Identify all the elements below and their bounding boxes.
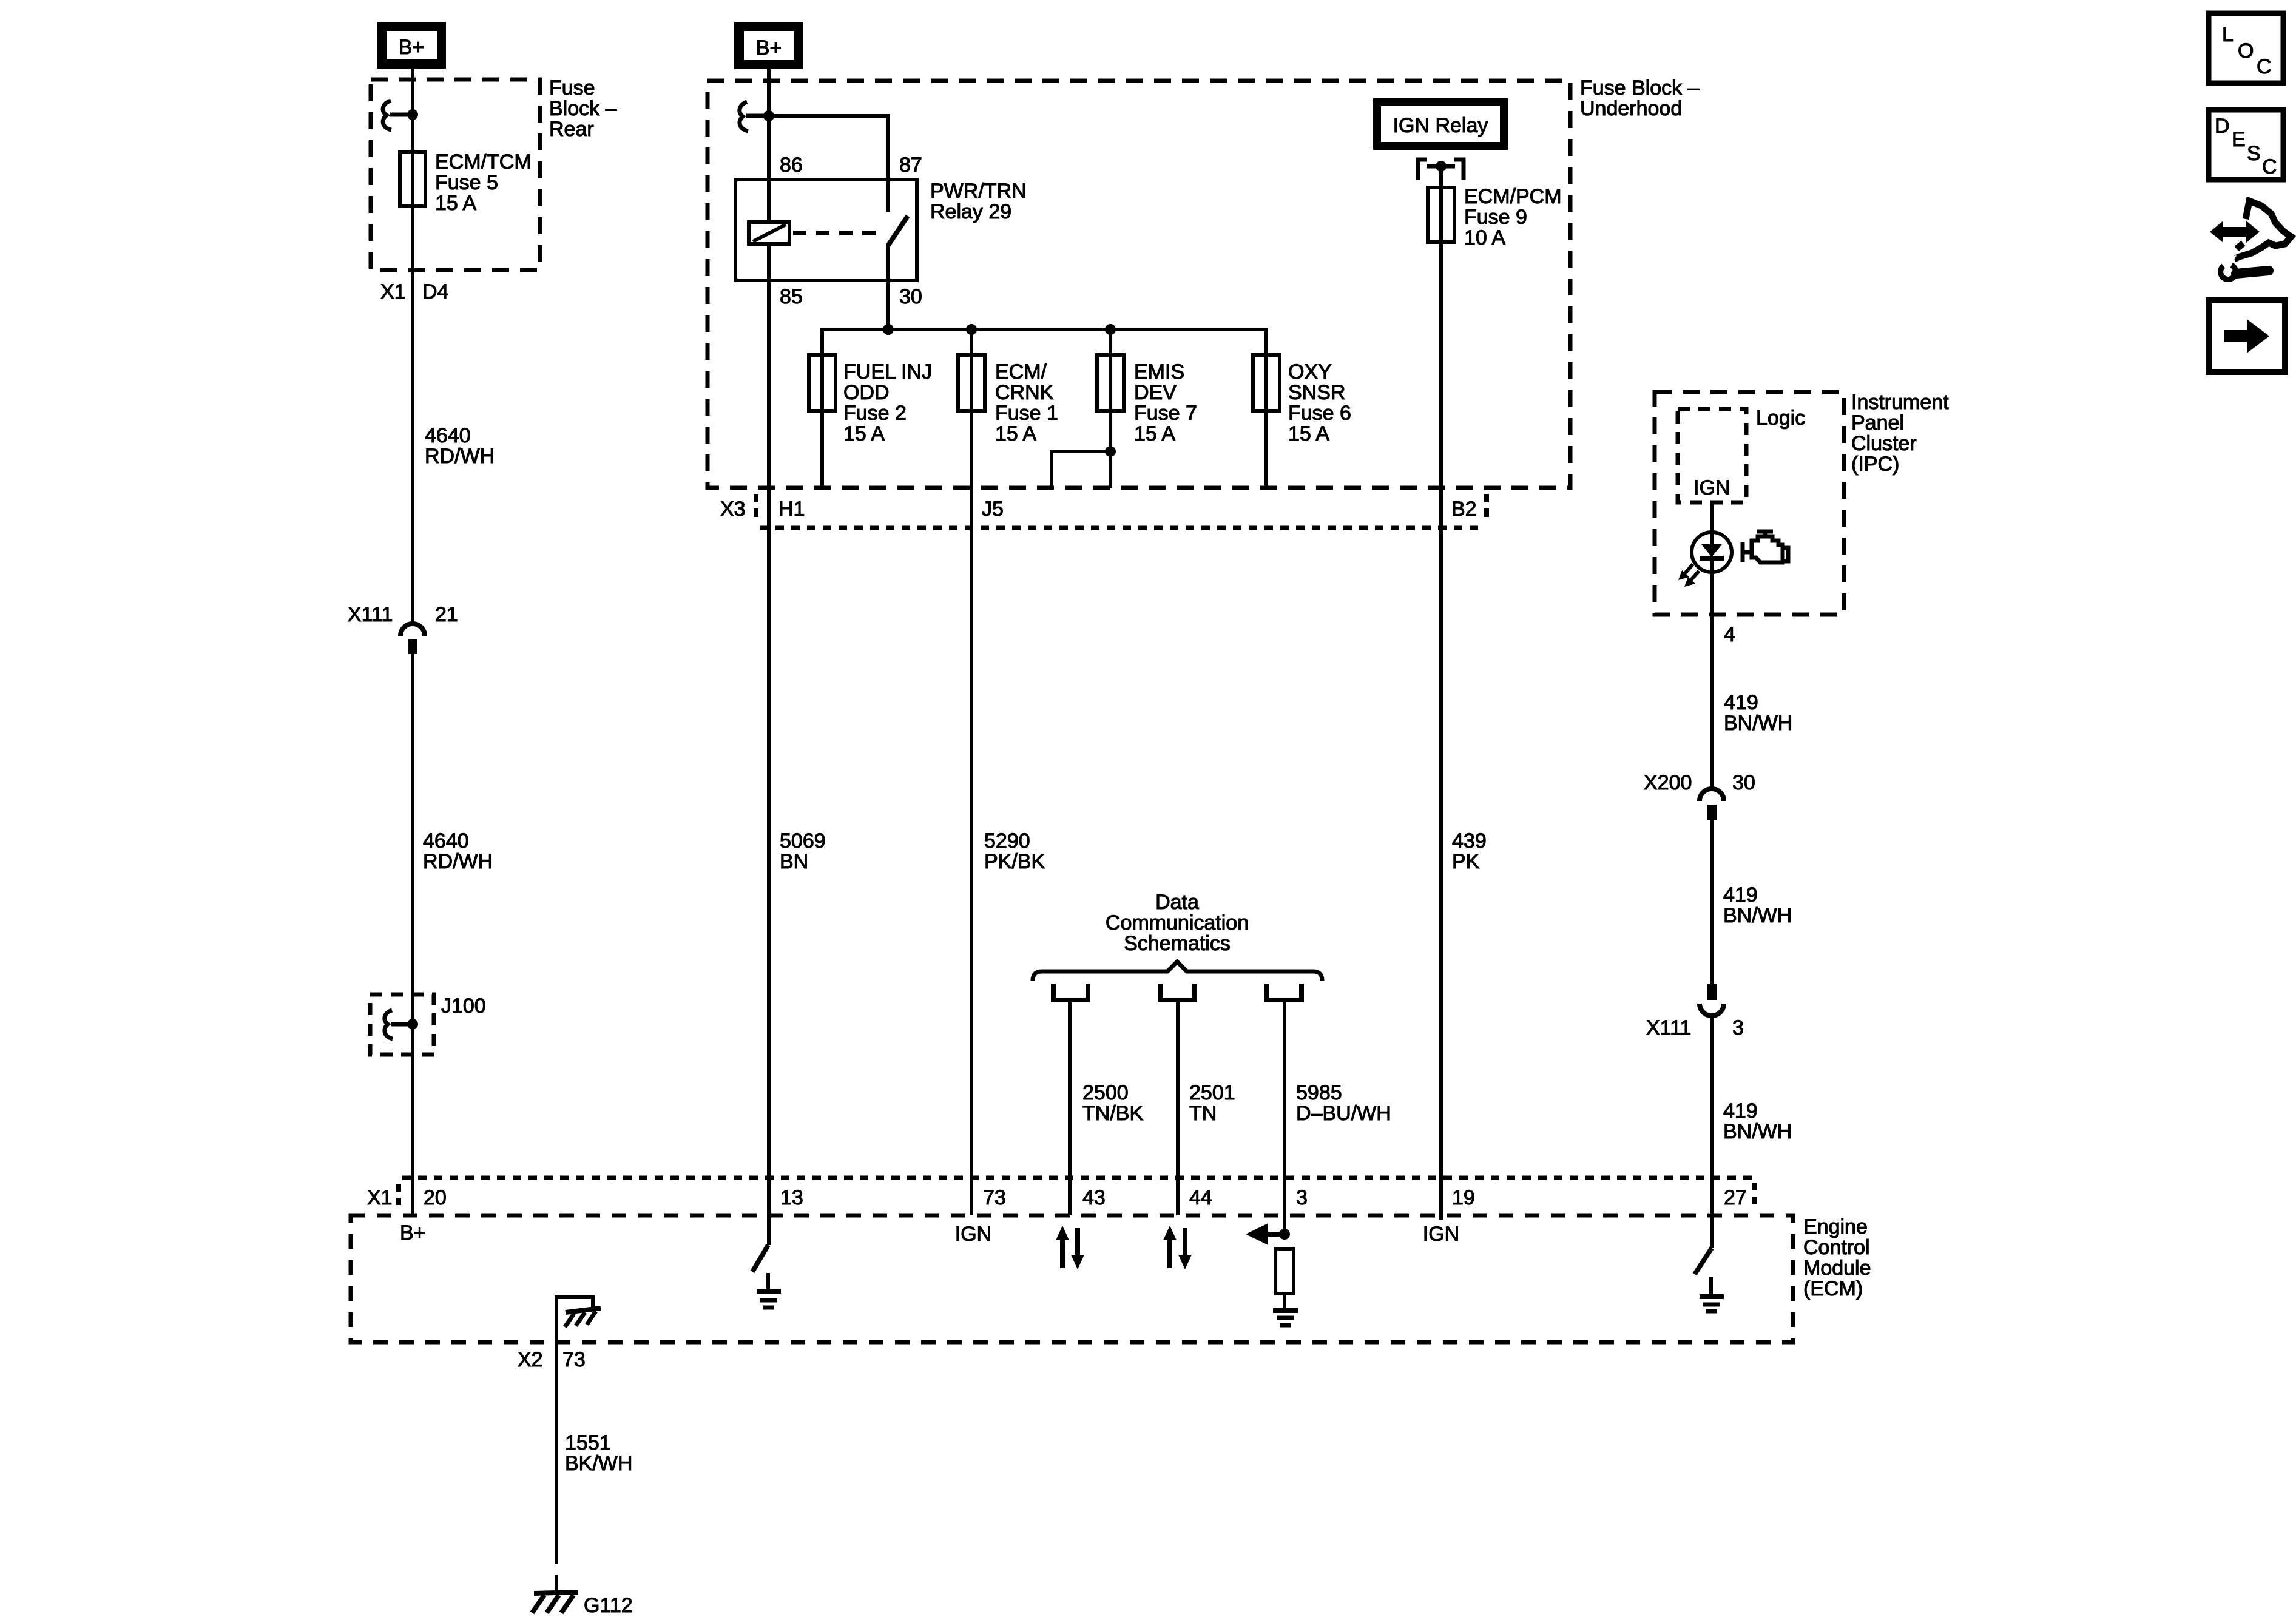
connector label X1 D4 [380, 280, 448, 303]
svg-text:IGN Relay: IGN Relay [1393, 114, 1488, 137]
connector X1 dotted line [402, 1176, 1755, 1180]
svg-text:RD/WH: RD/WH [423, 850, 493, 873]
svg-text:21: 21 [435, 603, 458, 626]
label Fuse Block - Underhood [1580, 76, 1700, 120]
svg-text:C: C [2257, 55, 2272, 78]
wire label 419 BN/WH [1723, 883, 1792, 927]
junction dot bus/fuse7 [1105, 324, 1116, 335]
svg-text:5985: 5985 [1296, 1081, 1342, 1104]
off-page connector to pin 43 [1053, 984, 1088, 1215]
svg-text:TN: TN [1189, 1102, 1217, 1125]
fuse EMIS DEV Fuse 7 15 A [1097, 329, 1197, 488]
svg-text:27: 27 [1724, 1186, 1747, 1209]
svg-text:B+: B+ [756, 36, 782, 59]
svg-text:B+: B+ [399, 36, 425, 59]
wire logic to LED [1710, 502, 1714, 535]
label Engine Control Module (ECM) [1803, 1215, 1871, 1300]
switch at pin 27 [1695, 1248, 1712, 1274]
svg-text:Fuse 1: Fuse 1 [995, 402, 1058, 425]
svg-text:86: 86 [780, 154, 803, 177]
svg-text:Fuse 5: Fuse 5 [435, 171, 498, 194]
wire label 5290 PK/BK [984, 829, 1045, 873]
svg-text:15 A: 15 A [995, 422, 1036, 445]
svg-text:(IPC): (IPC) [1851, 453, 1899, 476]
wire X111 to J100 [411, 654, 414, 1215]
svg-text:439: 439 [1452, 829, 1487, 852]
svg-text:Fuse 6: Fuse 6 [1288, 402, 1351, 425]
svg-text:419: 419 [1723, 1099, 1758, 1122]
svg-text:2500: 2500 [1082, 1081, 1129, 1104]
fuse OXY SNSR Fuse 6 15 A [1253, 355, 1351, 445]
svg-text:L: L [2222, 23, 2234, 46]
in-line connector X200 pin 30 [1644, 771, 1755, 820]
svg-text:Communication: Communication [1106, 911, 1249, 934]
in-line connector X111 pin 21 [348, 603, 458, 654]
svg-text:X200: X200 [1644, 771, 1692, 794]
svg-text:C: C [2262, 155, 2277, 178]
svg-text:IGN: IGN [1423, 1223, 1459, 1246]
J100 hook symbol [385, 1010, 393, 1039]
svg-text:5069: 5069 [780, 829, 826, 852]
bi-directional arrows at pin 44 [1163, 1226, 1192, 1269]
svg-text:ODD: ODD [843, 381, 890, 404]
junction dot 86/87 [763, 110, 774, 121]
connector label X2 73 [518, 1348, 586, 1371]
wire clip to fuse 9 [1439, 166, 1443, 1220]
bus wire [822, 329, 1266, 488]
indicator LED [1678, 532, 1732, 587]
wire label 419 BN/WH [1723, 1099, 1792, 1143]
icon DESC box [2209, 110, 2283, 180]
in-line connector X111 pin 3 [1646, 984, 1744, 1039]
wire X200 to X111 [1710, 820, 1714, 984]
relay coil [749, 222, 789, 244]
svg-text:CRNK: CRNK [995, 381, 1054, 404]
off-page connector to pin 44 [1160, 984, 1195, 1215]
wire hook to junction [391, 1022, 413, 1027]
X3 separator ticks [754, 494, 758, 521]
IPC dashed box [1655, 392, 1844, 615]
svg-text:87: 87 [899, 154, 922, 177]
svg-text:PK/BK: PK/BK [984, 850, 1045, 873]
label Fuse Block - Rear [549, 76, 617, 141]
svg-text:ECM/: ECM/ [995, 360, 1047, 383]
svg-text:RD/WH: RD/WH [425, 445, 495, 468]
wire label 2500 TN/BK [1082, 1081, 1143, 1125]
label Data Communication Schematics [1106, 891, 1249, 955]
Logic dashed box [1678, 409, 1746, 502]
svg-text:Logic: Logic [1756, 407, 1805, 430]
svg-text:20: 20 [424, 1186, 447, 1209]
ground earth symbol at pin 27 [1700, 1277, 1724, 1311]
connector X3 dotted line [760, 526, 1483, 530]
resistor at pin 3 [1275, 1249, 1294, 1294]
svg-text:43: 43 [1082, 1186, 1106, 1209]
junction dot bus/fuse1 [966, 324, 977, 335]
power feed B+ (middle) [734, 22, 803, 69]
dashed wire to G112 [555, 1548, 558, 1592]
ECM dashed box [351, 1215, 1793, 1342]
junction dot bus/30 [883, 324, 894, 335]
relay switch blade [888, 216, 908, 245]
svg-text:Engine: Engine [1803, 1215, 1868, 1238]
wire coil to pin 85 / down to ECM pin 13 [767, 244, 771, 1245]
svg-text:Fuse Block –: Fuse Block – [1580, 76, 1700, 100]
relay link dashed [793, 231, 881, 235]
svg-text:OXY: OXY [1288, 360, 1332, 383]
svg-text:Module: Module [1803, 1257, 1871, 1280]
engine pictogram [1743, 532, 1788, 562]
ground earth symbol at pin 13 [757, 1273, 781, 1308]
svg-text:S: S [2247, 142, 2261, 165]
splice J100 dashed box [370, 994, 434, 1055]
svg-text:419: 419 [1723, 883, 1758, 906]
icon wrench [2217, 255, 2269, 282]
Fuse Block - Underhood dashed box [707, 81, 1570, 488]
svg-text:X1: X1 [380, 280, 406, 303]
svg-text:15 A: 15 A [1134, 422, 1175, 445]
wire fuse 7 to block edge with jog [1052, 446, 1116, 488]
icon LOC box [2209, 13, 2283, 83]
wire hook to junction [746, 114, 769, 118]
svg-text:4640: 4640 [423, 829, 469, 852]
svg-text:Data: Data [1155, 891, 1199, 914]
svg-text:J5: J5 [982, 498, 1004, 521]
ground earth symbol at pin 3 [1273, 1311, 1298, 1325]
svg-text:DEV: DEV [1134, 381, 1177, 404]
icon hand with double arrow [2210, 201, 2291, 259]
svg-text:BN/WH: BN/WH [1723, 904, 1792, 927]
power feed B+ (left) [377, 22, 446, 69]
svg-text:73: 73 [562, 1348, 586, 1371]
svg-text:Panel: Panel [1851, 411, 1904, 434]
svg-text:IGN: IGN [1693, 476, 1730, 499]
svg-text:30: 30 [899, 285, 922, 308]
internal ground wire at X2 73 [556, 1297, 593, 1342]
svg-text:15 A: 15 A [1288, 422, 1329, 445]
wire label 4640 RD/WH [425, 424, 495, 468]
svg-text:D: D [2215, 115, 2230, 138]
wire resistor to ground [1283, 1294, 1286, 1309]
svg-text:B2: B2 [1451, 498, 1477, 521]
svg-text:FUEL INJ: FUEL INJ [843, 360, 932, 383]
junction dot [407, 109, 418, 120]
svg-text:73: 73 [983, 1186, 1006, 1209]
wire LED to pin 4 [1710, 572, 1714, 789]
fuse FUEL INJ ODD Fuse 2 15 A [809, 355, 836, 411]
wire B+ to fuse 5 [411, 68, 414, 623]
brace [1033, 962, 1322, 981]
wire pin 30 to bus [886, 243, 890, 329]
svg-text:BN/WH: BN/WH [1723, 1120, 1792, 1143]
junction dot J100 [407, 1019, 418, 1030]
label PWR/TRN Relay 29 [930, 180, 1027, 223]
svg-text:D4: D4 [422, 280, 448, 303]
svg-text:Block –: Block – [549, 97, 617, 120]
wire label 439 PK [1452, 829, 1487, 873]
chassis ground symbol at X2 [565, 1308, 601, 1327]
svg-text:H1: H1 [778, 498, 805, 521]
wire junction to pin 87 [769, 116, 888, 212]
svg-text:Fuse 2: Fuse 2 [843, 402, 907, 425]
svg-text:BN/WH: BN/WH [1724, 712, 1792, 735]
svg-text:4640: 4640 [425, 424, 471, 447]
bi-directional arrows at pin 43 [1056, 1226, 1084, 1269]
wire X2 73 to G112 [555, 1342, 558, 1548]
svg-text:PWR/TRN: PWR/TRN [930, 180, 1027, 203]
svg-text:J100: J100 [441, 994, 486, 1018]
svg-text:E: E [2232, 128, 2246, 151]
svg-text:19: 19 [1452, 1186, 1475, 1209]
svg-text:Relay 29: Relay 29 [930, 200, 1011, 223]
wire X111 to ECM pin 27 [1710, 1016, 1714, 1248]
svg-text:85: 85 [780, 285, 803, 308]
svg-text:X111: X111 [1646, 1016, 1691, 1039]
svg-text:BK/WH: BK/WH [565, 1452, 632, 1475]
svg-text:Fuse: Fuse [549, 76, 595, 100]
svg-text:O: O [2238, 39, 2254, 62]
svg-text:Underhood: Underhood [1580, 97, 1682, 120]
off-page connector to pin 3 [1267, 984, 1302, 1234]
svg-text:10 A: 10 A [1464, 226, 1505, 249]
svg-text:PK: PK [1452, 850, 1480, 873]
wire B+ down to junction [767, 69, 771, 222]
X1 separator ticks [396, 1184, 401, 1209]
svg-text:SNSR: SNSR [1288, 381, 1345, 404]
svg-text:Cluster: Cluster [1851, 432, 1917, 455]
svg-text:D–BU/WH: D–BU/WH [1296, 1102, 1391, 1125]
fuse holder clip [1418, 160, 1464, 180]
svg-text:Instrument: Instrument [1851, 391, 1949, 414]
svg-text:IGN: IGN [955, 1223, 991, 1246]
switch at pin 13 [752, 1245, 768, 1272]
svg-text:Rear: Rear [549, 118, 594, 141]
svg-text:Schematics: Schematics [1124, 932, 1231, 955]
svg-text:X2: X2 [518, 1348, 543, 1371]
svg-text:30: 30 [1732, 771, 1755, 794]
fuse ECM/CRNK Fuse 1 15 A [958, 329, 1058, 1215]
wire label 5985 D-BU/WH [1296, 1081, 1391, 1125]
svg-text:B+: B+ [400, 1221, 426, 1244]
fuse ECM/PCM Fuse 9 10 A [1428, 187, 1454, 242]
svg-text:44: 44 [1189, 1186, 1212, 1209]
label Instrument Panel Cluster (IPC) [1851, 391, 1949, 476]
serial data arrow at pin 3 [1246, 1223, 1290, 1245]
Fuse Block - Rear dashed box [371, 79, 540, 270]
IGN Relay box [1373, 98, 1508, 150]
svg-text:Fuse 9: Fuse 9 [1464, 206, 1527, 229]
svg-text:EMIS: EMIS [1134, 360, 1184, 383]
relay PWR/TRN Relay 29 box [735, 180, 917, 280]
svg-text:X111: X111 [348, 603, 393, 626]
fuse ECM/TCM Fuse 5 15 A [400, 152, 425, 206]
svg-text:Fuse 7: Fuse 7 [1134, 402, 1197, 425]
svg-text:X1: X1 [367, 1186, 393, 1209]
feed hook symbol [383, 101, 391, 130]
wire label 2501 TN [1189, 1081, 1235, 1125]
svg-text:G112: G112 [584, 1594, 633, 1617]
svg-text:TN/BK: TN/BK [1082, 1102, 1143, 1125]
svg-text:(ECM): (ECM) [1803, 1277, 1863, 1300]
svg-text:Control: Control [1803, 1236, 1870, 1259]
svg-text:3: 3 [1296, 1186, 1308, 1209]
svg-text:BN: BN [780, 850, 808, 873]
svg-text:2501: 2501 [1189, 1081, 1235, 1104]
feed hook symbol (middle) [740, 102, 748, 131]
svg-text:419: 419 [1724, 691, 1758, 714]
wire label 5069 BN [780, 829, 826, 873]
wire label 419 BN/WH [1724, 691, 1792, 735]
svg-text:3: 3 [1732, 1016, 1744, 1039]
svg-text:X3: X3 [720, 498, 746, 521]
svg-text:15 A: 15 A [843, 422, 885, 445]
svg-text:13: 13 [780, 1186, 803, 1209]
svg-text:4: 4 [1724, 623, 1735, 646]
svg-text:1551: 1551 [565, 1431, 611, 1454]
wire label 1551 BK/WH [565, 1431, 632, 1475]
ground G112 chassis symbol [532, 1592, 578, 1613]
wire label 4640 RD/WH [423, 829, 493, 873]
svg-text:ECM/PCM: ECM/PCM [1464, 185, 1562, 208]
wire hook to junction [390, 113, 413, 117]
svg-text:ECM/TCM: ECM/TCM [435, 150, 532, 174]
svg-text:15 A: 15 A [435, 192, 476, 215]
svg-text:5290: 5290 [984, 829, 1030, 852]
icon arrow box [2209, 300, 2285, 372]
